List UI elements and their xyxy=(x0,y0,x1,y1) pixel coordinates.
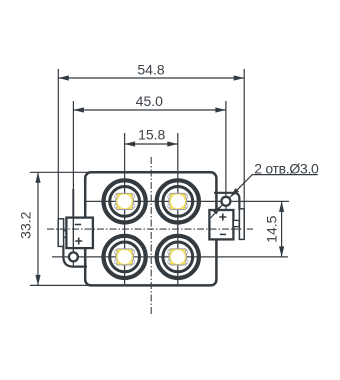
leader note 2 holes dia 3.0 xyxy=(211,175,318,218)
plus label right box xyxy=(219,214,226,221)
plus label left box xyxy=(75,238,82,245)
centerline horizontal bottom LED row xyxy=(52,256,288,258)
mounting tab bottom-left xyxy=(63,247,87,267)
centerline horizontal module axis xyxy=(47,228,253,230)
centerline vertical module axis xyxy=(150,157,152,314)
centerline vertical LED column right / ext 15.8 xyxy=(177,133,179,286)
dimension 33.2 xyxy=(30,172,92,285)
centerline vertical right hole xyxy=(225,192,227,211)
svg-text:33.2: 33.2 xyxy=(17,211,33,238)
minus label right box xyxy=(220,233,226,235)
mounting tab top-right xyxy=(214,193,239,210)
connector box right xyxy=(209,210,233,239)
mounting hole top-right xyxy=(221,197,230,206)
wire stub left xyxy=(72,189,74,218)
dimension 15.8 xyxy=(125,143,178,145)
centerline vertical LED column left / ext 15.8 xyxy=(124,133,126,286)
LED D3 bottom-left xyxy=(104,236,146,278)
connector bridge left xyxy=(64,231,67,238)
connector plate right xyxy=(239,209,244,240)
centerline vertical left hole xyxy=(72,218,74,268)
centerline horizontal top LED row xyxy=(86,200,289,202)
connector bridge right xyxy=(233,220,239,226)
mounting hole bottom-left xyxy=(69,252,78,261)
svg-text:15.8: 15.8 xyxy=(138,126,165,142)
svg-text:14.5: 14.5 xyxy=(263,215,279,242)
dimension 14.5 xyxy=(281,201,283,257)
LED D1 top-left xyxy=(104,180,146,222)
dimension 54.8 xyxy=(58,69,244,219)
connector box left xyxy=(66,218,93,249)
connector plate left xyxy=(58,219,63,247)
module body outline xyxy=(85,172,216,285)
svg-text:45.0: 45.0 xyxy=(136,93,163,109)
svg-text:54.8: 54.8 xyxy=(137,62,164,78)
LED D4 bottom-right xyxy=(157,236,199,278)
minus label left box xyxy=(75,224,81,226)
svg-text:2 отв.Ø3.0: 2 отв.Ø3.0 xyxy=(254,160,319,176)
LED D2 top-right xyxy=(157,180,199,222)
dimension 45.0 xyxy=(73,101,226,251)
